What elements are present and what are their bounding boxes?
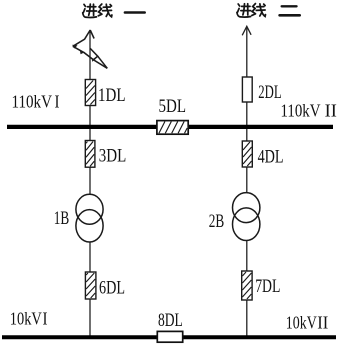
svg-text:3DL: 3DL (99, 146, 127, 166)
svg-text:110kV: 110kV (12, 92, 53, 112)
svg-text:I: I (43, 309, 48, 329)
svg-text:10kV: 10kV (10, 309, 42, 329)
svg-text:I: I (55, 92, 60, 112)
svg-text:2DL: 2DL (258, 83, 281, 103)
svg-text:1DL: 1DL (98, 86, 126, 106)
svg-text:1B: 1B (54, 209, 70, 229)
svg-text:II: II (317, 313, 328, 333)
svg-text:II: II (325, 100, 337, 120)
svg-text:10kV: 10kV (286, 313, 317, 333)
svg-text:4DL: 4DL (258, 148, 284, 168)
svg-text:8DL: 8DL (158, 311, 183, 331)
svg-text:5DL: 5DL (159, 97, 187, 117)
svg-text:6DL: 6DL (99, 278, 125, 298)
svg-text:110kV: 110kV (281, 100, 321, 120)
svg-text:2B: 2B (209, 212, 225, 232)
svg-text:7DL: 7DL (255, 277, 280, 297)
